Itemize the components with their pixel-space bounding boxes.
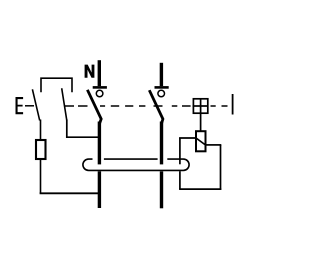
terminal bar at right end of linkage <box>232 94 234 115</box>
pole 2 conductor lower (below toroid) <box>160 171 163 208</box>
current transformer toroid <box>83 159 189 170</box>
trip linkage dashed line segment (E dash) <box>25 105 34 107</box>
trip linkage dashed line segment (square to terminal) <box>211 105 228 107</box>
pole N conductor lower (below toroid) <box>98 171 101 208</box>
wire from test contact 2 down and to pole N above toroid <box>67 120 100 138</box>
test contact 1 blade <box>32 89 39 120</box>
CT secondary wire: left edge upper (into toroid) <box>179 138 181 165</box>
pole N supply stub <box>98 60 101 86</box>
label N <box>85 65 95 78</box>
trip coil (relay) <box>196 131 206 151</box>
wire from crossed square to trip coil <box>200 113 202 131</box>
CT secondary wire: top edge right of coil <box>206 144 222 146</box>
wire from resistor to bottom test wire <box>40 160 42 194</box>
trip linkage dashed line segment (between poles) <box>100 105 145 107</box>
trip coil diagonal (wire through coil) <box>196 138 206 145</box>
CT secondary wire: left edge lower (below toroid) <box>179 171 181 189</box>
pole 2 supply stub <box>160 63 163 86</box>
pole N arrow bar <box>93 86 107 89</box>
test button bracket <box>41 78 72 92</box>
test contact 2 blade <box>62 88 67 120</box>
CT secondary wire: top edge left of coil <box>179 137 196 139</box>
CT secondary wire: right edge <box>220 145 222 190</box>
pole 2 moving blade <box>149 90 163 124</box>
toroid top edge gap at pole 2 <box>158 157 168 161</box>
bottom test wire to pole N below toroid <box>40 192 100 194</box>
wire from test contact 1 to resistor <box>40 120 42 140</box>
pole 2 fixed contact circle <box>158 90 165 97</box>
toroid top edge gap at pole N <box>93 157 104 161</box>
test resistor <box>36 140 46 159</box>
crossed square (linkage to trip relay) <box>193 98 209 114</box>
CT secondary wire: bottom edge <box>179 188 221 190</box>
trip linkage dashed line segment (pole 2 to square) <box>154 105 191 107</box>
pole N moving blade <box>87 90 101 124</box>
trip linkage dashed line segment (across test contact 2) <box>64 105 88 107</box>
label E (test button) <box>16 97 24 114</box>
pole 2 arrow bar <box>155 86 169 89</box>
pole N fixed contact circle <box>96 90 103 97</box>
pole N conductor upper (into toroid) <box>98 122 101 165</box>
pole 2 conductor upper (into toroid) <box>160 122 163 165</box>
